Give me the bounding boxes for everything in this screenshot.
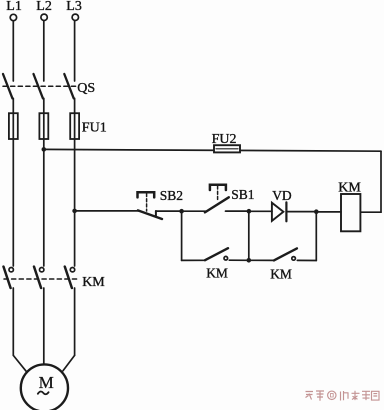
diode VD triangle: [272, 203, 284, 221]
wire L2 KM contact to motor: [43, 288, 45, 365]
fuse FU2: [214, 145, 240, 152]
diode VD cathode bar: [285, 202, 287, 221]
wire junction to diode VD: [249, 210, 272, 212]
fuse FU1 pole 1: [9, 113, 18, 139]
svg-text:L2: L2: [36, 0, 52, 14]
contactor KM main pole 3 blade: [65, 267, 72, 288]
fuse FU1 pole 2: [39, 113, 48, 139]
switch QS linkage dashed line: [3, 85, 76, 87]
pushbutton SB2 fixed contact tick: [155, 211, 157, 217]
wire control top rail from L2 to right edge: [44, 149, 381, 151]
pushbutton SB2 actuator cap: [138, 192, 155, 197]
wire L2 QS to fuse: [43, 98, 45, 113]
coil KM: [341, 194, 360, 231]
pushbutton SB1 actuator stem dashed: [217, 186, 219, 202]
svg-text:SB2: SB2: [160, 188, 183, 203]
wire right drop of parallel branch: [315, 212, 317, 261]
wire SB2 to junction: [156, 210, 182, 212]
motor M circle: [21, 364, 68, 410]
wire control rail L3 to SB2: [75, 210, 139, 212]
wire left drop of holding branch: [181, 211, 183, 260]
wire KM aux 1 to junction: [229, 259, 249, 261]
switch QS pole 1 blade: [3, 74, 12, 98]
contactor KM main pole 1 blade: [4, 267, 11, 288]
wire L1 QS to fuse: [12, 98, 14, 113]
wire L1 KM contact to motor: [12, 288, 14, 355]
wire L3 KM contact to motor: [74, 288, 76, 355]
switch QS pole 3 blade: [64, 74, 73, 98]
wire middle drop between junctions: [248, 211, 250, 260]
wire L1 through fuse down to KM contact: [12, 113, 14, 266]
contactor KM main pole 2 contact circle: [40, 268, 44, 272]
svg-text:VD: VD: [272, 188, 292, 203]
svg-text:SB1: SB1: [231, 187, 254, 202]
svg-text:L3: L3: [66, 0, 82, 14]
wire L1 diagonal into motor: [13, 355, 26, 371]
node junction dot after SB2: [179, 209, 184, 214]
wire junction to KM coil: [316, 211, 341, 213]
pushbutton SB2 actuator stem dashed: [146, 194, 148, 212]
contactor KM main pole 2 blade: [34, 267, 41, 288]
contactor KM main pole 3 contact circle: [70, 268, 74, 272]
svg-text:KM: KM: [338, 181, 361, 196]
wire L3 QS to fuse: [74, 98, 76, 113]
node junction dot bottom middle: [247, 258, 252, 263]
svg-text:FU2: FU2: [212, 132, 237, 147]
node junction dot on L3 feeding control bottom rail: [72, 209, 77, 214]
node junction dot after SB1: [247, 209, 252, 214]
wire L3 terminal to QS: [74, 21, 76, 81]
contact KM aux 1 blade (NO): [205, 248, 228, 260]
contact KM aux 2 blade (NO): [274, 248, 297, 260]
node junction dot after VD: [314, 209, 319, 214]
svg-text:M: M: [39, 373, 54, 392]
contactor KM main linkage dashed line: [4, 278, 79, 280]
switch QS pole 2 blade: [34, 74, 43, 98]
svg-text:L1: L1: [6, 0, 22, 14]
terminal L1: [10, 14, 16, 20]
pushbutton SB1 blade (NO): [205, 197, 229, 212]
wire KM aux 2 to right drop: [297, 259, 316, 261]
wire L3 through fuse down to KM contact: [74, 113, 76, 266]
wire junction to KM aux contact 2: [249, 259, 274, 261]
node junction dot on L2 feeding control rail: [42, 147, 47, 152]
pushbutton SB2 blade (NC): [138, 210, 162, 219]
svg-text:KM: KM: [206, 265, 228, 280]
wire L2 terminal to QS: [43, 21, 45, 81]
wire from right vertical to KM coil: [360, 211, 381, 213]
motor AC tilde: [38, 392, 49, 395]
pushbutton SB1 actuator cap: [210, 185, 226, 190]
terminal L2: [41, 14, 47, 20]
wire SB1 to junction: [226, 210, 249, 212]
contact KM aux 1 fixed contact circle: [224, 256, 228, 260]
wire L2 through fuse down to KM contact: [43, 113, 45, 266]
contact KM aux 2 fixed contact circle: [292, 257, 296, 261]
svg-text:KM: KM: [82, 275, 105, 290]
wire branch rail to KM aux contact 1: [182, 259, 206, 261]
wire L3 diagonal into motor: [63, 355, 75, 370]
contactor KM main pole 1 contact circle: [9, 268, 13, 272]
svg-text:QS: QS: [77, 81, 95, 96]
terminal L3: [72, 14, 78, 20]
fuse FU1 pole 3: [70, 113, 79, 139]
wire L1 terminal to QS: [12, 21, 14, 81]
wire right vertical down to coil level: [380, 151, 382, 212]
svg-text:KM: KM: [270, 267, 292, 282]
wire VD to junction: [286, 211, 316, 213]
wire junction to SB1: [182, 210, 206, 212]
watermark 头条@机械知网: [306, 391, 380, 401]
svg-text:FU1: FU1: [82, 120, 107, 135]
